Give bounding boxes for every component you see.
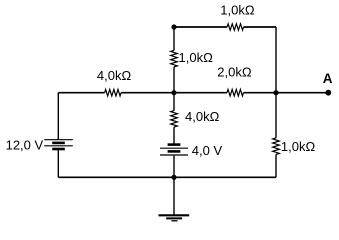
node A terminal bbox=[323, 71, 333, 96]
svg-text:1,0kΩ: 1,0kΩ bbox=[220, 3, 255, 18]
wire middle segment (middle node to R 2,0k) bbox=[174, 92, 227, 94]
svg-text:4,0kΩ: 4,0kΩ bbox=[97, 68, 132, 83]
battery V1 12,0 V bbox=[6, 137, 73, 152]
junction middle node bbox=[171, 90, 176, 95]
wire top-left segment (node junction to R top) bbox=[174, 26, 227, 28]
wire middle segment (right node to terminal A) bbox=[276, 92, 328, 94]
resistor 4,0k middle vertical bbox=[171, 109, 220, 127]
junction right node bbox=[273, 90, 278, 95]
svg-text:1,0kΩ: 1,0kΩ bbox=[179, 50, 214, 65]
resistor 2,0k horizontal bbox=[217, 65, 252, 96]
resistor 1,0k middle vertical bbox=[171, 50, 213, 67]
wire middle segment (R to middle node) bbox=[121, 92, 174, 94]
wire left branch upper (corner down to battery) bbox=[57, 93, 59, 140]
svg-text:A: A bbox=[323, 71, 333, 86]
junction top node bbox=[171, 24, 176, 29]
wire middle-left segment (left corner to R) bbox=[58, 92, 104, 94]
resistor 1,0k top horizontal bbox=[220, 3, 255, 31]
wire right branch middle (node to R top) bbox=[275, 93, 277, 138]
resistor 4,0k left horizontal bbox=[97, 68, 132, 96]
svg-text:4,0 V: 4,0 V bbox=[192, 143, 223, 158]
wire middle branch (R bottom to battery) bbox=[173, 127, 175, 144]
wire top-right segment bbox=[244, 26, 276, 28]
wire middle branch lower (battery to bottom wire) bbox=[173, 156, 175, 178]
resistor 1,0k right vertical bbox=[273, 138, 316, 154]
wire middle branch top stub (top node to R) bbox=[173, 27, 175, 50]
svg-text:12,0 V: 12,0 V bbox=[6, 137, 44, 152]
wire left branch lower (battery to bottom wire) bbox=[57, 150, 59, 178]
wire right branch lower (R bottom to bottom wire) bbox=[275, 154, 277, 177]
wire right branch upper (top corner down to middle node) bbox=[275, 27, 277, 93]
wire bottom bbox=[58, 176, 276, 178]
svg-text:4,0kΩ: 4,0kΩ bbox=[185, 109, 220, 124]
wire middle branch (middle node to R 4,0k) bbox=[173, 93, 175, 111]
battery V2 4,0 V bbox=[160, 143, 222, 158]
wire middle segment (R 2,0k to right node) bbox=[244, 92, 277, 94]
wire middle branch (R bottom to middle node) bbox=[173, 67, 175, 93]
svg-text:1,0kΩ: 1,0kΩ bbox=[281, 139, 316, 154]
ground bbox=[159, 215, 190, 221]
wire ground stem bbox=[173, 177, 175, 215]
junction bottom node bbox=[171, 175, 176, 180]
svg-text:2,0kΩ: 2,0kΩ bbox=[217, 65, 252, 80]
